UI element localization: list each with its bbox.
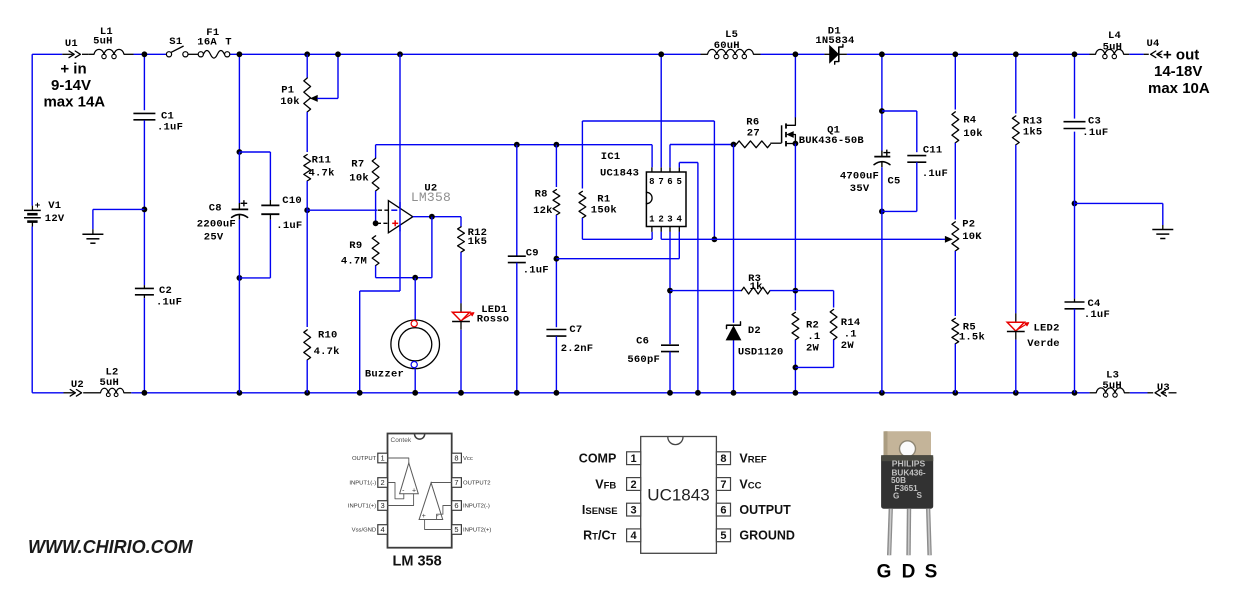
svg-text:12k: 12k	[533, 205, 553, 217]
svg-text:C11: C11	[923, 144, 943, 156]
svg-text:VREF: VREF	[739, 452, 767, 466]
svg-text:L5: L5	[725, 29, 738, 41]
svg-text:U3: U3	[1157, 382, 1170, 394]
svg-text:4.7k: 4.7k	[314, 346, 340, 358]
svg-text:.1: .1	[844, 329, 857, 341]
svg-text:.1uF: .1uF	[276, 220, 302, 232]
svg-text:10k: 10k	[280, 96, 300, 108]
svg-text:U1: U1	[65, 38, 78, 50]
svg-text:2200uF: 2200uF	[197, 219, 236, 231]
svg-text:LM 358: LM 358	[393, 554, 442, 570]
svg-text:10k: 10k	[963, 128, 983, 140]
svg-text:1: 1	[649, 215, 655, 225]
svg-text:R9: R9	[349, 240, 362, 252]
svg-text:ISENSE: ISENSE	[582, 503, 618, 517]
svg-text:27: 27	[747, 128, 760, 140]
svg-text:R11: R11	[312, 155, 332, 167]
svg-text:RT/CT: RT/CT	[583, 529, 616, 543]
svg-text:D2: D2	[748, 325, 761, 337]
svg-text:4: 4	[631, 530, 638, 542]
svg-text:10k: 10k	[349, 172, 369, 184]
svg-text:150k: 150k	[591, 204, 617, 216]
svg-text:UC1843: UC1843	[600, 167, 639, 179]
svg-text:2W: 2W	[806, 343, 820, 355]
svg-text:8: 8	[649, 177, 655, 187]
svg-text:LED2: LED2	[1034, 322, 1060, 334]
svg-text:R10: R10	[318, 329, 338, 341]
svg-text:16A: 16A	[197, 36, 217, 48]
svg-text:4.7M: 4.7M	[341, 256, 367, 268]
svg-text:C6: C6	[636, 336, 649, 348]
svg-text:35V: 35V	[850, 183, 870, 195]
svg-text:1k5: 1k5	[1023, 127, 1043, 139]
svg-text:INPUT1(+): INPUT1(+)	[348, 504, 376, 510]
svg-text:Vcc: Vcc	[463, 456, 473, 462]
svg-text:C8: C8	[209, 202, 222, 214]
svg-text:R14: R14	[841, 317, 861, 329]
svg-text:PHILIPS: PHILIPS	[892, 459, 926, 469]
svg-text:GROUND: GROUND	[739, 529, 795, 543]
svg-text:max 10A: max 10A	[1148, 80, 1210, 97]
svg-text:4: 4	[676, 215, 682, 225]
svg-text:D: D	[902, 562, 916, 583]
svg-text:IC1: IC1	[601, 151, 621, 163]
svg-text:Verde: Verde	[1027, 338, 1060, 350]
svg-text:12V: 12V	[45, 213, 65, 225]
svg-text:1k5: 1k5	[468, 236, 488, 248]
svg-text:.1uF: .1uF	[1084, 309, 1110, 321]
svg-text:Contek: Contek	[391, 437, 412, 444]
svg-text:+: +	[35, 200, 41, 211]
svg-text:1.5k: 1.5k	[959, 332, 985, 344]
svg-text:P1: P1	[281, 84, 294, 96]
svg-text:V1: V1	[48, 200, 61, 212]
svg-text:.1uF: .1uF	[157, 122, 183, 134]
svg-text:VCC: VCC	[739, 477, 761, 491]
svg-text:14-18V: 14-18V	[1154, 63, 1202, 80]
svg-text:T: T	[225, 36, 232, 48]
svg-text:USD1120: USD1120	[738, 346, 784, 358]
svg-text:C7: C7	[569, 324, 582, 336]
svg-text:C10: C10	[282, 195, 302, 207]
svg-text:6: 6	[454, 501, 458, 510]
svg-text:P2: P2	[962, 218, 975, 230]
svg-text:8: 8	[454, 454, 458, 463]
svg-text:5uH: 5uH	[1103, 41, 1123, 53]
svg-text:1: 1	[381, 454, 385, 463]
svg-text:+ out: + out	[1163, 47, 1199, 64]
svg-text:LM358: LM358	[411, 190, 451, 205]
svg-text:5: 5	[720, 530, 726, 542]
svg-text:COMP: COMP	[579, 452, 617, 466]
svg-text:5uH: 5uH	[100, 377, 120, 389]
svg-text:INPUT2(+): INPUT2(+)	[463, 528, 491, 534]
svg-text:7: 7	[720, 479, 726, 491]
svg-text:Buzzer: Buzzer	[365, 368, 404, 380]
svg-text:10K: 10K	[962, 231, 982, 243]
svg-text:7: 7	[658, 177, 664, 187]
svg-text:.1uF: .1uF	[1082, 127, 1108, 139]
svg-text:25V: 25V	[204, 232, 224, 244]
svg-text:1: 1	[631, 453, 637, 465]
svg-text:60uH: 60uH	[714, 40, 740, 52]
svg-text:WWW.CHIRIO.COM: WWW.CHIRIO.COM	[28, 537, 194, 557]
svg-text:5uH: 5uH	[93, 36, 113, 48]
svg-text:UC1843: UC1843	[647, 485, 709, 504]
svg-text:9-14V: 9-14V	[51, 77, 91, 94]
svg-text:max 14A: max 14A	[43, 94, 105, 111]
svg-text:R8: R8	[535, 189, 548, 201]
svg-text:8: 8	[720, 453, 726, 465]
svg-text:C2: C2	[159, 285, 172, 297]
svg-text:+ in: + in	[60, 61, 86, 78]
svg-text:C1: C1	[161, 110, 174, 122]
svg-text:BUK436-50B: BUK436-50B	[799, 135, 865, 147]
svg-text:G: G	[893, 491, 899, 500]
svg-text:R4: R4	[963, 114, 976, 126]
svg-text:U2: U2	[71, 379, 84, 391]
svg-text:4: 4	[381, 525, 385, 534]
svg-text:.1uF: .1uF	[922, 168, 948, 180]
svg-text:C3: C3	[1088, 116, 1101, 128]
svg-text:4700uF: 4700uF	[840, 171, 879, 183]
svg-text:1N5834: 1N5834	[815, 35, 854, 47]
svg-text:C5: C5	[888, 175, 901, 187]
svg-text:3: 3	[381, 501, 385, 510]
svg-text:2: 2	[381, 478, 385, 487]
svg-text:560pF: 560pF	[627, 354, 660, 366]
svg-text:2W: 2W	[841, 340, 855, 352]
svg-text:OUTPUT: OUTPUT	[739, 503, 791, 517]
svg-text:.1uF: .1uF	[523, 264, 549, 276]
svg-text:2: 2	[631, 479, 637, 491]
svg-text:6: 6	[720, 504, 726, 516]
svg-text:G: G	[877, 562, 892, 583]
svg-text:7: 7	[454, 478, 458, 487]
svg-text:5: 5	[676, 177, 682, 187]
svg-text:+: +	[422, 513, 426, 520]
svg-text:INPUT1(-): INPUT1(-)	[349, 481, 376, 487]
svg-text:2.2nF: 2.2nF	[561, 343, 594, 355]
svg-text:1k: 1k	[750, 281, 763, 293]
svg-text:2: 2	[658, 215, 664, 225]
svg-text:S: S	[925, 562, 938, 583]
svg-text:5: 5	[454, 525, 458, 534]
svg-text:INPUT2(-): INPUT2(-)	[463, 504, 490, 510]
svg-text:.1uF: .1uF	[156, 297, 182, 309]
svg-text:+: +	[412, 487, 416, 494]
svg-text:3: 3	[631, 504, 637, 516]
svg-text:6: 6	[667, 177, 673, 187]
svg-text:S: S	[917, 491, 923, 500]
svg-text:OUTPUT: OUTPUT	[352, 456, 377, 462]
svg-text:3: 3	[667, 215, 673, 225]
svg-text:5uH: 5uH	[1102, 380, 1122, 392]
svg-text:R7: R7	[351, 159, 364, 171]
svg-text:C9: C9	[526, 248, 539, 260]
svg-text:S1: S1	[169, 36, 182, 48]
svg-text:4.7k: 4.7k	[309, 167, 335, 179]
svg-text:OUTPUT2: OUTPUT2	[463, 481, 491, 487]
svg-text:Vss/GND: Vss/GND	[352, 528, 377, 534]
svg-text:L4: L4	[1108, 30, 1121, 42]
svg-text:VFB: VFB	[595, 477, 616, 491]
svg-text:R2: R2	[806, 319, 819, 331]
svg-text:U4: U4	[1147, 38, 1160, 50]
svg-text:.1: .1	[807, 331, 820, 343]
svg-text:Rosso: Rosso	[477, 313, 510, 325]
